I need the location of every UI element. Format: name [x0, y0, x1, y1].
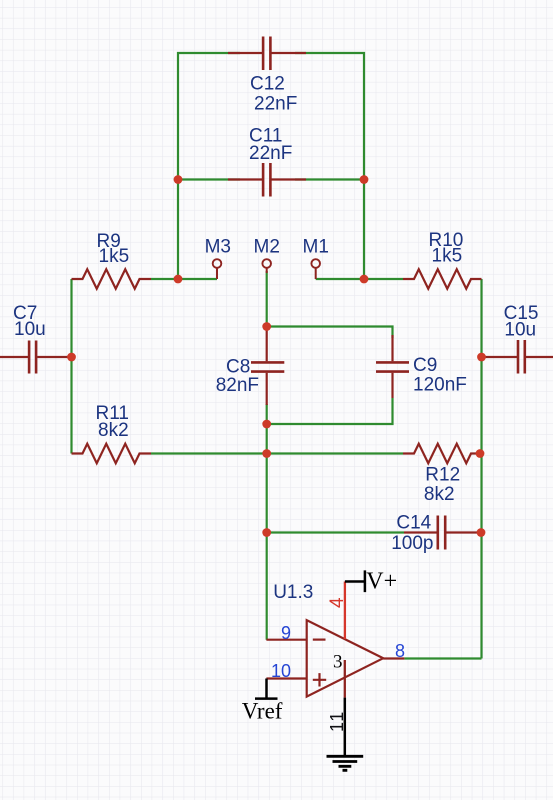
wire pin8 to right rail: [404, 657, 481, 659]
svg-text:1k5: 1k5: [99, 246, 130, 267]
junction R11 row: [262, 449, 271, 458]
testpoint M2: [262, 259, 271, 273]
pin 4 lead (V+): [344, 582, 346, 640]
capacitor C15: [482, 340, 553, 374]
pin 11 wire to ground: [344, 698, 347, 756]
svg-text:8k2: 8k2: [98, 420, 129, 441]
wire mid rail lower: [266, 404, 268, 640]
resistor R10: [403, 269, 482, 288]
junction C7: [67, 353, 76, 362]
svg-text:10u: 10u: [504, 320, 536, 341]
capacitor C9: [376, 335, 409, 398]
wire C14 left: [267, 531, 404, 533]
svg-text:10u: 10u: [14, 319, 46, 340]
ground symbol: [327, 756, 364, 770]
svg-text:R12: R12: [425, 465, 460, 486]
svg-text:3: 3: [333, 651, 343, 672]
op-amp minus input mark: [313, 638, 326, 640]
svg-text:100p: 100p: [391, 533, 433, 554]
junction C15: [477, 353, 486, 362]
testpoint M3: [213, 259, 222, 279]
junction R9/M3 row: [174, 275, 183, 284]
svg-text:22nF: 22nF: [249, 143, 292, 164]
op-amp U1.3 triangle: [307, 620, 384, 696]
resistor R9: [72, 269, 152, 288]
testpoint M1: [311, 259, 320, 279]
wire R9 to M3: [151, 278, 217, 280]
junction R12 right: [476, 449, 485, 458]
svg-text:8: 8: [395, 641, 405, 661]
wire left rail: [70, 279, 72, 454]
Vref rail symbol: [255, 679, 278, 699]
wire mid rail upper: [266, 271, 268, 329]
op-amp plus input mark: [313, 673, 326, 686]
wire C9 branch bottom: [267, 398, 393, 424]
capacitor C12: [228, 37, 306, 71]
svg-text:U1.3: U1.3: [273, 582, 313, 603]
svg-text:8k2: 8k2: [424, 484, 455, 505]
capacitor C8: [251, 328, 284, 405]
svg-text:11: 11: [327, 710, 347, 732]
wire top loop (C12/C11 frame): [178, 53, 364, 279]
wire C9 branch top: [267, 327, 393, 339]
pin 11 lead upper: [344, 660, 346, 698]
capacitor C7: [0, 341, 72, 374]
pin 8 lead: [383, 657, 404, 659]
svg-text:C14: C14: [396, 512, 431, 533]
junction C11 right: [360, 175, 369, 184]
wire M1 to R10: [316, 278, 403, 280]
resistor R12: [403, 444, 482, 463]
V+ rail symbol: [345, 570, 365, 592]
svg-text:C9: C9: [413, 355, 437, 376]
wire R11 to R12: [151, 452, 403, 454]
junction M1/R10 row: [360, 275, 369, 284]
capacitor C11: [228, 163, 306, 197]
junction C8 top: [262, 322, 271, 331]
junction C14 right: [477, 528, 486, 537]
junction C8 bottom: [262, 420, 271, 429]
svg-text:9: 9: [281, 623, 291, 643]
svg-text:120nF: 120nF: [413, 374, 467, 395]
pin 10 lead: [266, 677, 306, 679]
svg-text:1k5: 1k5: [432, 245, 463, 266]
wire right rail: [480, 279, 482, 659]
svg-text:Vref: Vref: [242, 698, 283, 723]
svg-text:10: 10: [271, 661, 291, 681]
svg-text:V+: V+: [366, 569, 397, 595]
junction C14 left: [262, 528, 271, 537]
junction C11 left: [174, 175, 183, 184]
svg-text:M3: M3: [205, 237, 231, 258]
svg-text:M2: M2: [254, 237, 280, 258]
svg-text:C12: C12: [250, 74, 285, 95]
pin 9 lead: [266, 639, 306, 641]
resistor R11: [72, 444, 152, 463]
svg-text:M1: M1: [303, 237, 329, 258]
svg-text:82nF: 82nF: [216, 375, 259, 396]
capacitor C14: [404, 516, 482, 550]
svg-text:4: 4: [327, 597, 348, 608]
svg-text:22nF: 22nF: [254, 94, 297, 115]
